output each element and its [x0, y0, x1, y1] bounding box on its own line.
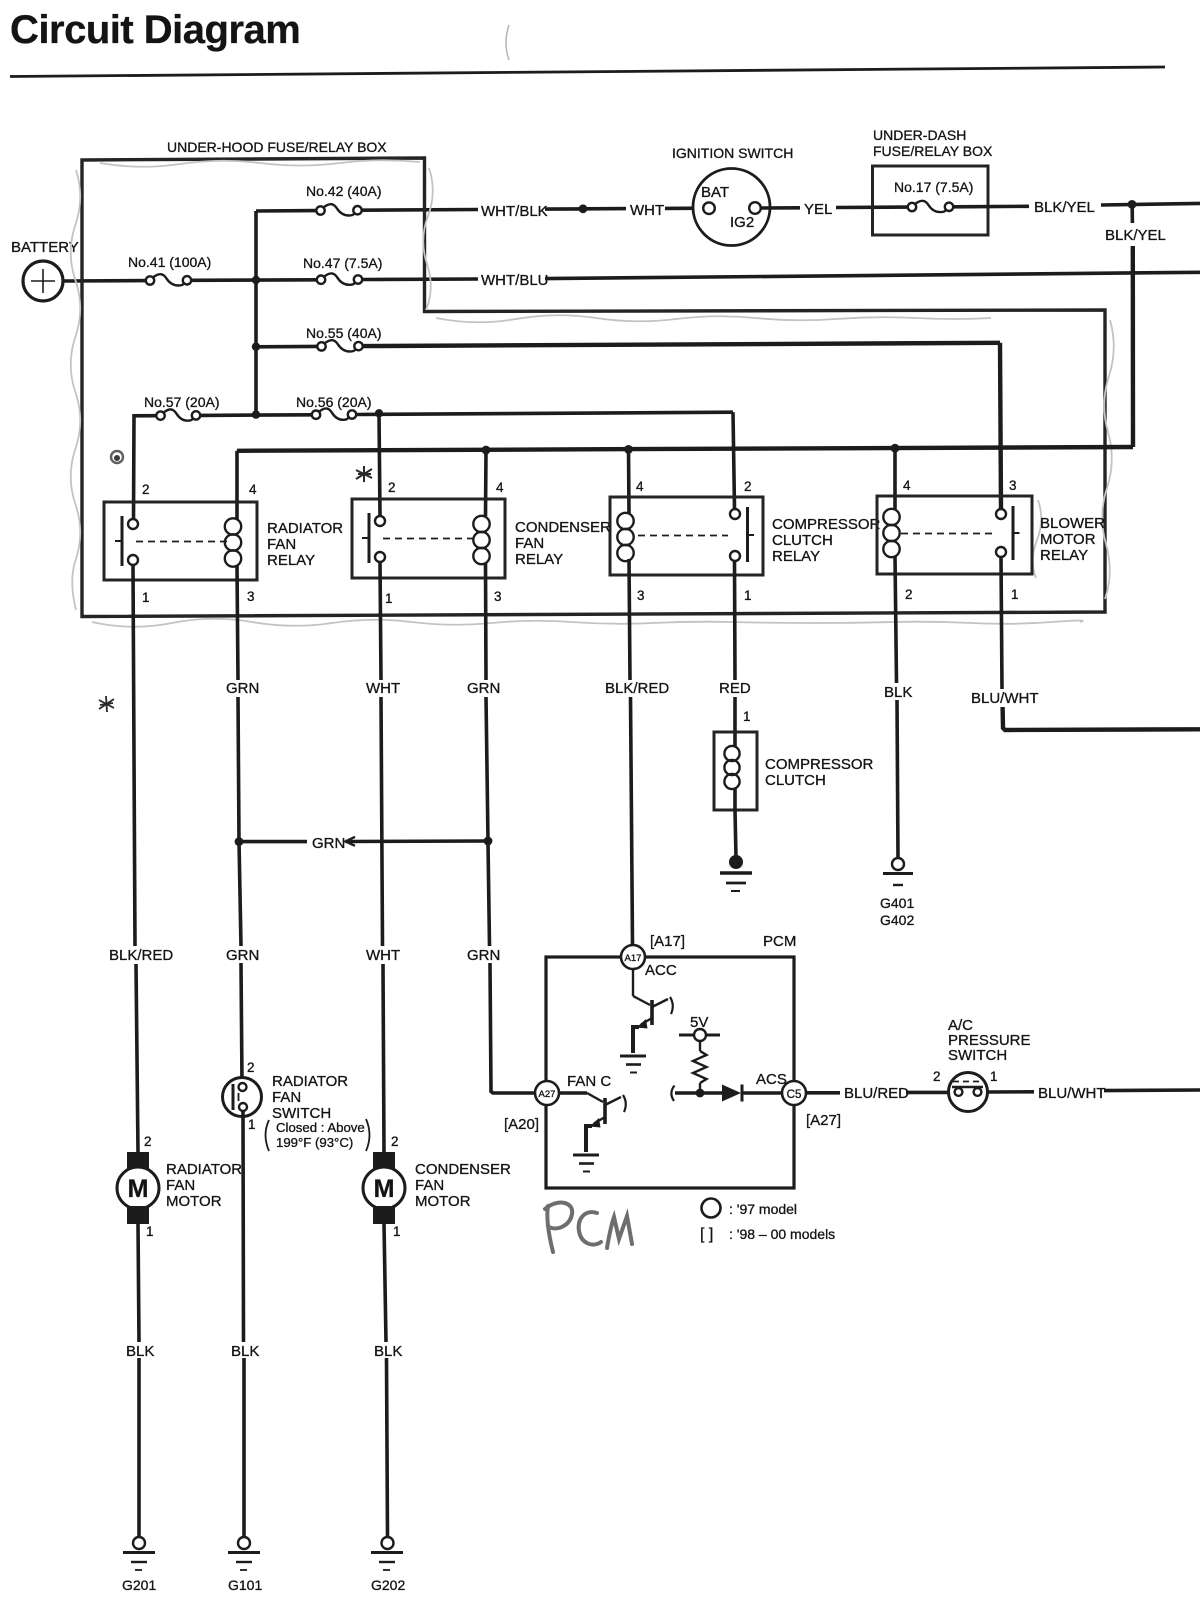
svg-text:1: 1: [142, 590, 150, 605]
battery B1: [11, 239, 79, 301]
svg-text:COMPRESSOR: COMPRESSOR: [765, 756, 874, 773]
svg-text:RADIATOR: RADIATOR: [166, 1161, 242, 1178]
svg-text:2: 2: [388, 480, 396, 495]
svg-text:No.57 (20A): No.57 (20A): [144, 394, 219, 410]
relay K1 radiator fan relay: [104, 482, 343, 605]
svg-text:3: 3: [637, 588, 645, 603]
handwritten PCM scribble: [545, 1203, 632, 1252]
wire drop to condenser coil: [484, 450, 488, 516]
wire compressor pin3 down (BLK/RED): [629, 559, 630, 680]
ACS line left hook: [671, 1086, 674, 1102]
svg-text:BLU/RED: BLU/RED: [844, 1085, 909, 1102]
wire No.42 to WHT/BLK label: [362, 208, 478, 212]
svg-text:G201: G201: [122, 1577, 156, 1593]
svg-text:RADIATOR: RADIATOR: [267, 520, 343, 537]
diode D1: [722, 1085, 742, 1102]
condenser fan motor M2: [363, 1134, 511, 1239]
svg-text:1: 1: [990, 1069, 998, 1084]
svg-text:FAN: FAN: [267, 536, 296, 553]
svg-text:RELAY: RELAY: [515, 551, 563, 568]
under-dash fuse/relay box: [873, 127, 993, 235]
svg-text:199°F (93°C): 199°F (93°C): [276, 1135, 353, 1150]
svg-text:ACC: ACC: [645, 962, 677, 979]
svg-text:UNDER-DASH: UNDER-DASH: [873, 127, 966, 143]
wire GRN col4 to PCM corner: [490, 963, 535, 1093]
wire fan switch to BLK: [241, 1111, 245, 1342]
svg-text:BLK/RED: BLK/RED: [605, 680, 669, 697]
title scratch mark: [506, 25, 509, 60]
svg-text:G101: G101: [228, 1577, 262, 1593]
wire RED to clutch: [733, 697, 737, 732]
svg-text:: '97 model: : '97 model: [729, 1201, 797, 1217]
svg-text:4: 4: [496, 480, 504, 495]
svg-text:BLK/YEL: BLK/YEL: [1105, 227, 1166, 244]
ground Q2 emitter: [573, 1155, 599, 1172]
svg-text:BLK: BLK: [374, 1343, 402, 1360]
svg-text:2: 2: [144, 1134, 152, 1149]
svg-text:IGNITION SWITCH: IGNITION SWITCH: [672, 145, 793, 161]
SECTION: top distribution: [11, 127, 1200, 519]
wire No.57 to No.56: [201, 413, 313, 417]
whiteout squiggle mid vertical edge: [423, 168, 433, 310]
ground G401/G402: [880, 858, 914, 928]
wire No.55 drop to blower contact: [1000, 343, 1001, 509]
connector A27: [535, 1081, 559, 1105]
svg-text:FUSE/RELAY BOX: FUSE/RELAY BOX: [873, 143, 993, 159]
svg-text:2: 2: [744, 479, 752, 494]
svg-text:BLU/WHT: BLU/WHT: [971, 690, 1039, 707]
wire No.41 to bus: [192, 278, 317, 282]
wire GRN col4 below junction: [488, 843, 490, 946]
node GRN junction left: [235, 837, 244, 846]
wire WHT to condenser motor: [383, 964, 384, 1152]
svg-text:1: 1: [385, 591, 393, 606]
wire condenser motor down: [384, 1224, 386, 1342]
svg-text:FAN: FAN: [166, 1177, 195, 1194]
5V supply rail: [679, 1029, 720, 1041]
SECTION: middle columns: [99, 556, 1200, 1152]
svg-text:3: 3: [1009, 478, 1017, 493]
svg-text:1: 1: [743, 709, 751, 724]
wire drop to condenser contact: [379, 413, 380, 515]
wire BLK to G201: [137, 1358, 141, 1537]
svg-text:Circuit Diagram: Circuit Diagram: [10, 8, 300, 52]
svg-text:No.42 (40A): No.42 (40A): [306, 183, 381, 199]
fuse No.47 (7.5A): [303, 255, 382, 285]
compressor clutch L1: [714, 732, 874, 810]
svg-text:IG2: IG2: [730, 214, 754, 231]
wire condenser pin3 down (GRN): [484, 563, 488, 680]
svg-text:BLOWER: BLOWER: [1040, 515, 1105, 532]
wire condenser pin1 down (WHT): [380, 562, 381, 680]
svg-text:4: 4: [636, 479, 644, 494]
GRN crossover link: [243, 840, 307, 844]
wire drop to compressor coil: [627, 449, 631, 513]
svg-text:1: 1: [393, 1224, 401, 1239]
wire blower pin1 down (BLU/WHT): [1001, 557, 1002, 689]
wire WHT middle: [381, 697, 383, 946]
svg-text:[ ]: [ ]: [700, 1226, 713, 1243]
wire ACS line left: [675, 1091, 722, 1095]
svg-text:3: 3: [494, 589, 502, 604]
svg-text:MOTOR: MOTOR: [166, 1193, 222, 1210]
title rule: [10, 67, 1165, 77]
svg-text:BLK/RED: BLK/RED: [109, 947, 173, 964]
svg-text:BLK/YEL: BLK/YEL: [1034, 199, 1095, 216]
node rail/blower coil: [891, 444, 900, 453]
wire radiator pin1 down (BLK/RED): [133, 565, 135, 946]
wire clutch to ground: [735, 810, 736, 858]
wire BLK/YEL drop to coil rail: [1131, 246, 1136, 447]
wire drop to blower coil: [893, 448, 897, 509]
wire YEL into under-dash box: [836, 205, 907, 209]
svg-text:[A17]: [A17]: [650, 933, 685, 950]
svg-text:2: 2: [905, 587, 913, 602]
wire GRN col4 middle: [486, 697, 488, 841]
arrow on GRN link: [346, 837, 356, 846]
wire IG2 to YEL: [761, 206, 800, 210]
node splice on ignition feed: [579, 204, 588, 213]
svg-text:M: M: [128, 1175, 149, 1203]
wire blower pin2 down (BLK): [895, 556, 897, 683]
svg-text:2: 2: [391, 1134, 399, 1149]
svg-text:C5: C5: [787, 1089, 802, 1101]
relay K3 compressor clutch relay: [610, 479, 881, 603]
svg-text:COMPRESSOR: COMPRESSOR: [772, 516, 881, 533]
wire GRN link right part: [346, 839, 488, 843]
node rail/condenser coil: [482, 446, 491, 455]
fuse No.41 (100A): [128, 254, 211, 286]
radiator fan switch S1: [223, 1060, 370, 1151]
wire radiator pin3 down (GRN): [237, 566, 238, 680]
whiteout squiggle top edge: [100, 160, 420, 167]
wire diode to C5: [742, 1091, 782, 1095]
wire battery to fuse No.41: [63, 279, 146, 283]
ground G202: [371, 1537, 405, 1593]
svg-text:No.47 (7.5A): No.47 (7.5A): [303, 255, 382, 271]
svg-text:GRN: GRN: [467, 947, 500, 964]
fuse No.55 (40A): [306, 325, 381, 352]
svg-text:SWITCH: SWITCH: [948, 1047, 1007, 1064]
svg-text:BATTERY: BATTERY: [11, 239, 79, 256]
ground G201: [122, 1537, 156, 1593]
wire radiator motor down: [138, 1224, 139, 1342]
svg-text:FAN: FAN: [515, 535, 544, 552]
svg-text:[A20]: [A20]: [504, 1116, 539, 1133]
transistor Q2: [559, 1093, 626, 1152]
svg-text:MOTOR: MOTOR: [415, 1193, 471, 1210]
svg-text:MOTOR: MOTOR: [1040, 531, 1096, 548]
wire BLK/RED to motor: [136, 964, 138, 1152]
svg-text:BLU/WHT: BLU/WHT: [1038, 1085, 1106, 1102]
scan bug asterisk: [99, 696, 114, 712]
node GRN junction right: [484, 837, 493, 846]
svg-text:1: 1: [248, 1117, 256, 1132]
svg-text:[A27]: [A27]: [806, 1112, 841, 1129]
wire BLK to G101: [242, 1358, 246, 1537]
svg-text:4: 4: [249, 482, 257, 497]
svg-text:BLK: BLK: [126, 1343, 154, 1360]
ground compressor clutch: [720, 855, 752, 891]
wire drop to compressor contact: [733, 412, 735, 508]
whiteout squiggle right edge: [1102, 320, 1114, 599]
wire node to WHT label: [587, 207, 626, 211]
svg-text:WHT: WHT: [366, 947, 400, 964]
svg-text:ACS: ACS: [756, 1071, 787, 1088]
svg-text:FAN: FAN: [415, 1177, 444, 1194]
wire No.55 long run right: [363, 343, 1000, 346]
wire BLU/WHT to right edge: [1104, 1088, 1200, 1092]
node bus/row280: [252, 276, 260, 284]
svg-text:BAT: BAT: [701, 184, 729, 201]
wire BLK to G202: [387, 1358, 388, 1537]
wire row415 left corner down to radiator contact: [134, 416, 157, 519]
wire WHT to BAT terminal: [665, 206, 703, 210]
svg-text:G402: G402: [880, 912, 914, 928]
svg-text:RELAY: RELAY: [772, 548, 820, 565]
ground G101: [228, 1537, 262, 1593]
wire BLK/YEL to right edge: [1101, 203, 1200, 205]
svg-text:WHT: WHT: [630, 202, 664, 219]
ignition switch SW1: [672, 145, 793, 246]
SECTION: pcm and bottom: [117, 933, 1200, 1593]
wire GRN junction to label: [239, 841, 241, 946]
svg-text:M: M: [374, 1175, 395, 1203]
wire No.56 run right: [357, 412, 734, 414]
fuse No.56 (20A): [296, 394, 371, 420]
svg-text:CONDENSER: CONDENSER: [415, 1161, 511, 1178]
wire BLK/RED to PCM A17: [631, 697, 633, 945]
whiteout squiggle bottom edge: [92, 619, 1083, 627]
node BLK/YEL branch: [1128, 200, 1137, 209]
svg-text:2: 2: [142, 482, 150, 497]
svg-text:FAN C: FAN C: [567, 1073, 611, 1090]
svg-text:2: 2: [247, 1060, 255, 1075]
wire BLK/YEL drop upper stub: [1130, 208, 1134, 223]
A/C pressure switch S2: [933, 1017, 1031, 1112]
relay K2 condenser fan relay: [352, 480, 611, 606]
node bus/No.55: [252, 343, 260, 351]
wire WHT/BLK to node: [545, 207, 579, 211]
svg-text:1: 1: [1011, 587, 1019, 602]
wire row WHT/BLU from bus to label: [363, 277, 479, 281]
resistor R1 pull-up: [693, 1041, 707, 1090]
legend '98-00 models: [700, 1226, 835, 1243]
svg-text:BLK: BLK: [884, 684, 912, 701]
svg-text:CONDENSER: CONDENSER: [515, 519, 611, 536]
svg-text:BLK: BLK: [231, 1343, 259, 1360]
scan ring mark: [111, 451, 123, 463]
relay K4 blower motor relay: [877, 478, 1105, 602]
svg-text:GRN: GRN: [226, 680, 259, 697]
svg-text:GRN: GRN: [467, 680, 500, 697]
radiator fan motor M1: [117, 1134, 242, 1239]
svg-text:G401: G401: [880, 895, 914, 911]
wire row211 bus to fuse No.42: [256, 209, 316, 213]
svg-text:1: 1: [744, 588, 752, 603]
svg-text:PCM: PCM: [763, 933, 796, 950]
wire C5 to BLU/RED: [806, 1091, 840, 1095]
scan asterisk mark: [356, 466, 372, 482]
wire GRN to junction: [238, 697, 239, 841]
svg-text:YEL: YEL: [804, 201, 832, 218]
svg-text:No.17 (7.5A): No.17 (7.5A): [894, 179, 973, 195]
wire BLU/WHT corner to right edge: [1003, 707, 1200, 730]
wire compressor pin1 down (RED): [733, 561, 737, 680]
svg-text:2: 2: [933, 1069, 941, 1084]
svg-text:RELAY: RELAY: [1040, 547, 1088, 564]
whiteout squiggle blower right: [1033, 500, 1042, 578]
svg-text:UNDER-HOOD FUSE/RELAY BOX: UNDER-HOOD FUSE/RELAY BOX: [167, 139, 387, 155]
node No.56 row / condenser drop: [375, 409, 383, 417]
wire rail corner down to radiator coil: [235, 451, 239, 519]
whiteout squiggle left edge: [71, 170, 81, 610]
legend '97 model: [702, 1199, 798, 1218]
wire row No.55 from bus: [256, 345, 317, 349]
fuse No.42 (40A): [306, 183, 381, 216]
svg-text:A27: A27: [539, 1089, 556, 1100]
transistor Q1: [633, 969, 673, 1053]
svg-text:: '98 – 00 models: : '98 – 00 models: [729, 1226, 835, 1242]
whiteout squiggle top-right edge: [436, 315, 991, 322]
connector A17: [621, 945, 645, 969]
wire WHT/BLU long to right edge: [545, 272, 1200, 278]
wire BLK to G401: [897, 700, 898, 858]
ground Q1 emitter: [620, 1056, 646, 1073]
wire BLU/RED to pressure switch: [906, 1091, 949, 1095]
svg-text:RADIATOR: RADIATOR: [272, 1073, 348, 1090]
svg-text:CLUTCH: CLUTCH: [772, 532, 833, 549]
coil supply rail: [237, 447, 1133, 451]
fuse No.17 (7.5A): [894, 179, 973, 212]
svg-text:WHT/BLU: WHT/BLU: [481, 272, 549, 289]
svg-text:No.55 (40A): No.55 (40A): [306, 325, 381, 341]
vertical bus wire: [254, 211, 258, 415]
wire No.17 to BLK/YEL: [954, 205, 1030, 209]
svg-text:No.56 (20A): No.56 (20A): [296, 394, 371, 410]
svg-text:No.41 (100A): No.41 (100A): [128, 254, 211, 270]
node rail/compressor coil: [624, 445, 633, 454]
fuse No.57 (20A): [144, 394, 219, 421]
svg-text:G202: G202: [371, 1577, 405, 1593]
svg-text:GRN: GRN: [312, 835, 345, 852]
svg-text:3: 3: [247, 589, 255, 604]
svg-text:RED: RED: [719, 680, 751, 697]
SECTION: underhood box and relays: [71, 139, 1133, 627]
svg-text:Closed : Above: Closed : Above: [276, 1120, 365, 1135]
under-hood fuse/relay box: [82, 139, 1105, 617]
connector C5: [782, 1081, 806, 1105]
svg-text:GRN: GRN: [226, 947, 259, 964]
PCM box U1: [546, 957, 794, 1188]
wire GRN to fan switch: [241, 963, 242, 1083]
svg-text:1: 1: [146, 1224, 154, 1239]
svg-text:CLUTCH: CLUTCH: [765, 772, 826, 789]
node bus/row415: [252, 410, 260, 418]
svg-text:FAN: FAN: [272, 1089, 301, 1106]
svg-text:WHT: WHT: [366, 680, 400, 697]
wire pressure switch to BLU/WHT: [987, 1090, 1034, 1094]
svg-text:RELAY: RELAY: [267, 552, 315, 569]
svg-text:A17: A17: [625, 953, 642, 964]
svg-text:4: 4: [903, 478, 911, 493]
node resistor/ACS line: [696, 1089, 705, 1098]
svg-text:WHT/BLK: WHT/BLK: [481, 203, 548, 220]
